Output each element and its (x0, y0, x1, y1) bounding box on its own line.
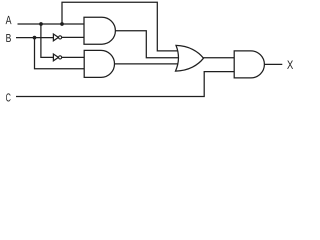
node C (input label) (6, 93, 11, 101)
wire B branch down to AND2 lower input (35, 38, 85, 69)
wire A branch down to inverter U2 (41, 24, 54, 57)
wire B input line (16, 37, 54, 39)
AND gate U4 (middle, inputs NOT A and B) (84, 50, 114, 77)
OR gate U5 (3 inputs) (176, 45, 204, 71)
inverter U2 bubble (59, 56, 62, 59)
AND gate U6 (output, inputs OR out and C) (234, 51, 264, 78)
node A (input label) (6, 16, 12, 24)
inverter U2 (NOT on A) triangle (53, 54, 58, 61)
node junction dot on B at x=34.5 (33, 36, 37, 40)
node B (input label) (6, 34, 11, 42)
wire AND U3 output to OR middle input (115, 31, 180, 58)
wire inverter U2 output to AND2 upper input (62, 56, 84, 58)
inverter U1 bubble (59, 36, 62, 39)
wire C input line up to AND3 lower input (16, 72, 234, 97)
wire AND U6 output to X (264, 63, 282, 65)
wire A top route to OR gate top input (62, 2, 179, 51)
inverter U1 (NOT on B) triangle (53, 34, 58, 41)
node junction dot on A at x=41 (39, 22, 43, 26)
wire inverter U1 output to AND1 lower input (62, 36, 84, 38)
wire OR U5 output to AND3 upper input (204, 57, 235, 59)
wire AND U4 output to OR bottom input (115, 63, 181, 65)
node junction dot on A at x=62 (60, 22, 64, 26)
wire A input line (18, 23, 85, 25)
node X (output label) (287, 60, 293, 68)
AND gate U3 (top, inputs A and NOT B) (84, 17, 115, 44)
